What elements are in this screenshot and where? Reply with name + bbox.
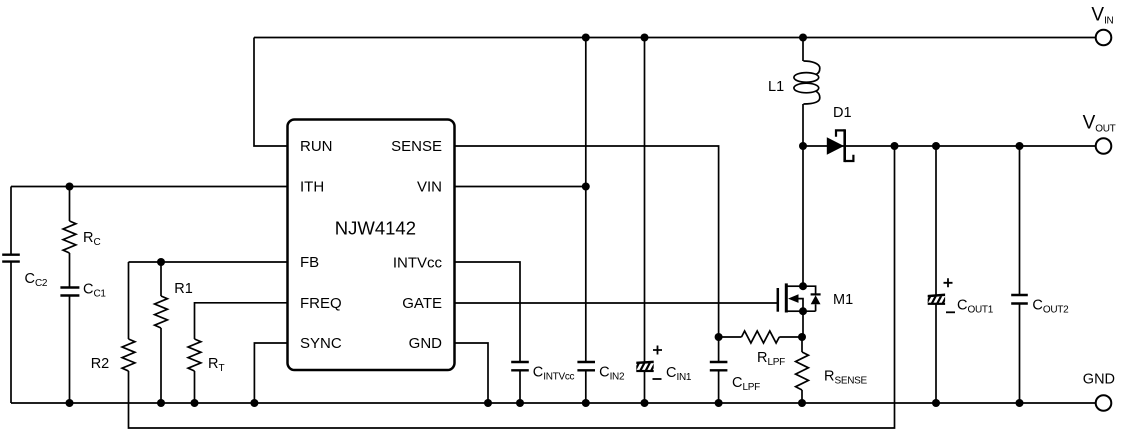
- diode D1 schottky: [827, 129, 854, 162]
- resistor R2: [122, 339, 135, 371]
- resistor RLPF: [742, 331, 780, 343]
- capacitor CIN1 polarized: [635, 361, 662, 373]
- node rail CINTVcc: [516, 399, 524, 407]
- wire MOSFET source down: [802, 311, 804, 337]
- body arrow: [788, 294, 799, 303]
- svg-text:R2: R2: [91, 356, 110, 372]
- drain stub: [787, 285, 803, 287]
- svg-text:ITH: ITH: [300, 179, 324, 196]
- wire switch node to MOSFET drain: [802, 146, 804, 286]
- resistor R1: [155, 296, 168, 328]
- op-amp U1 IC NJW4142 box: [288, 120, 455, 371]
- node rail RC: [66, 399, 74, 407]
- wire VOUT line: [803, 145, 1096, 147]
- gate bar: [777, 288, 780, 312]
- svg-text:L1: L1: [768, 79, 784, 95]
- node VOUT COUT2 junction: [1016, 142, 1024, 150]
- wire CIN2 branch: [585, 38, 587, 404]
- channel bar: [785, 283, 788, 312]
- node rail SYNC: [250, 399, 258, 407]
- source stub: [787, 310, 803, 312]
- wire FB line: [129, 261, 288, 263]
- wire SYNC branch: [254, 343, 287, 403]
- COUT1 plus sign: [944, 278, 953, 287]
- node ITH junction: [66, 183, 74, 191]
- node rail COUT2: [1016, 399, 1024, 407]
- node FB junction R1: [157, 258, 165, 266]
- wire SENSE net: [455, 146, 719, 337]
- svg-text:NJW4142: NJW4142: [335, 218, 416, 239]
- node rail CIN2: [582, 399, 590, 407]
- svg-text:FB: FB: [300, 254, 319, 271]
- COUT1 minus sign: [946, 311, 955, 313]
- svg-text:M1: M1: [833, 292, 853, 308]
- node switch node: [799, 142, 807, 150]
- node rail CLPF: [715, 399, 723, 407]
- inductor L1: [794, 61, 820, 104]
- svg-text:D1: D1: [833, 105, 852, 121]
- wire R1 branch: [160, 262, 162, 403]
- capacitor COUT1 polarized: [926, 294, 953, 305]
- node top rail CIN2: [582, 34, 590, 42]
- terminal GND: [1096, 395, 1112, 411]
- svg-text:INTVcc: INTVcc: [393, 255, 443, 272]
- CIN1 plus sign: [653, 346, 662, 355]
- svg-text:GATE: GATE: [402, 295, 442, 312]
- CIN1 minus sign: [653, 378, 662, 380]
- terminal VOUT: [1096, 138, 1112, 154]
- node top rail L1: [799, 34, 807, 42]
- node rail RT: [191, 399, 199, 407]
- wire RLPF left stub: [719, 336, 742, 338]
- node VOUT COUT1 junction: [932, 142, 940, 150]
- capacitor CC2: [2, 255, 20, 262]
- wire ITH line: [11, 186, 288, 188]
- transistor M1 MOSFET: [778, 283, 821, 312]
- node rail GND pin: [484, 399, 492, 407]
- wire COUT2 branch: [1019, 146, 1021, 403]
- wire INTVcc branch: [455, 262, 521, 403]
- node VOUT return junction: [891, 142, 899, 150]
- svg-text:GND: GND: [1083, 372, 1115, 388]
- node rail CIN1: [641, 399, 649, 407]
- node rail COUT1: [932, 399, 940, 407]
- node RLPF RSENSE junction: [798, 333, 806, 341]
- svg-text:GND: GND: [409, 335, 443, 352]
- svg-text:FREQ: FREQ: [300, 295, 342, 312]
- wire RUN to top rail: [254, 38, 288, 147]
- capacitor CINTVcc: [511, 362, 529, 370]
- capacitor CC1: [60, 288, 79, 296]
- wire VIN pin to rail branch: [455, 186, 586, 188]
- wire CIN1 branch: [644, 38, 646, 404]
- wire RSENSE branch: [801, 337, 803, 403]
- capacitor CLPF: [710, 362, 728, 370]
- node MOSFET drain: [799, 282, 807, 290]
- resistor RC: [63, 221, 76, 253]
- capacitor CIN2: [577, 362, 595, 370]
- wire R2 branch to lower return: [129, 146, 895, 428]
- wire COUT1 branch: [935, 146, 937, 403]
- svg-text:RUN: RUN: [300, 138, 333, 155]
- wire top rail VIN: [254, 37, 1096, 39]
- wire RLPF right stub: [779, 336, 802, 338]
- svg-text:SYNC: SYNC: [300, 335, 342, 352]
- wire CLPF branch: [718, 337, 720, 403]
- wire GATE line: [455, 302, 778, 304]
- resistor RT: [188, 339, 201, 371]
- terminal VIN: [1096, 30, 1112, 46]
- node MOSFET source: [799, 307, 807, 315]
- node top rail CIN1: [641, 34, 649, 42]
- capacitor COUT2: [1011, 295, 1028, 304]
- svg-text:VIN: VIN: [417, 179, 442, 196]
- node rail RSENSE: [798, 399, 806, 407]
- svg-text:R1: R1: [174, 281, 193, 297]
- wire RC branch: [69, 187, 71, 404]
- resistor RSENSE: [796, 352, 809, 390]
- body diode: [803, 286, 816, 311]
- wire L1 top stub: [802, 38, 804, 62]
- wire L1 to switch node: [802, 104, 804, 146]
- wire FREQ line to RT: [195, 303, 288, 403]
- node VIN junction: [582, 183, 590, 191]
- node rail R1: [157, 399, 165, 407]
- wire ground rail: [11, 402, 1096, 404]
- node RLPF left junction: [715, 333, 723, 341]
- svg-text:SENSE: SENSE: [391, 138, 442, 155]
- wire left branch CC2: [10, 187, 12, 404]
- wire GND pin branch: [455, 343, 489, 403]
